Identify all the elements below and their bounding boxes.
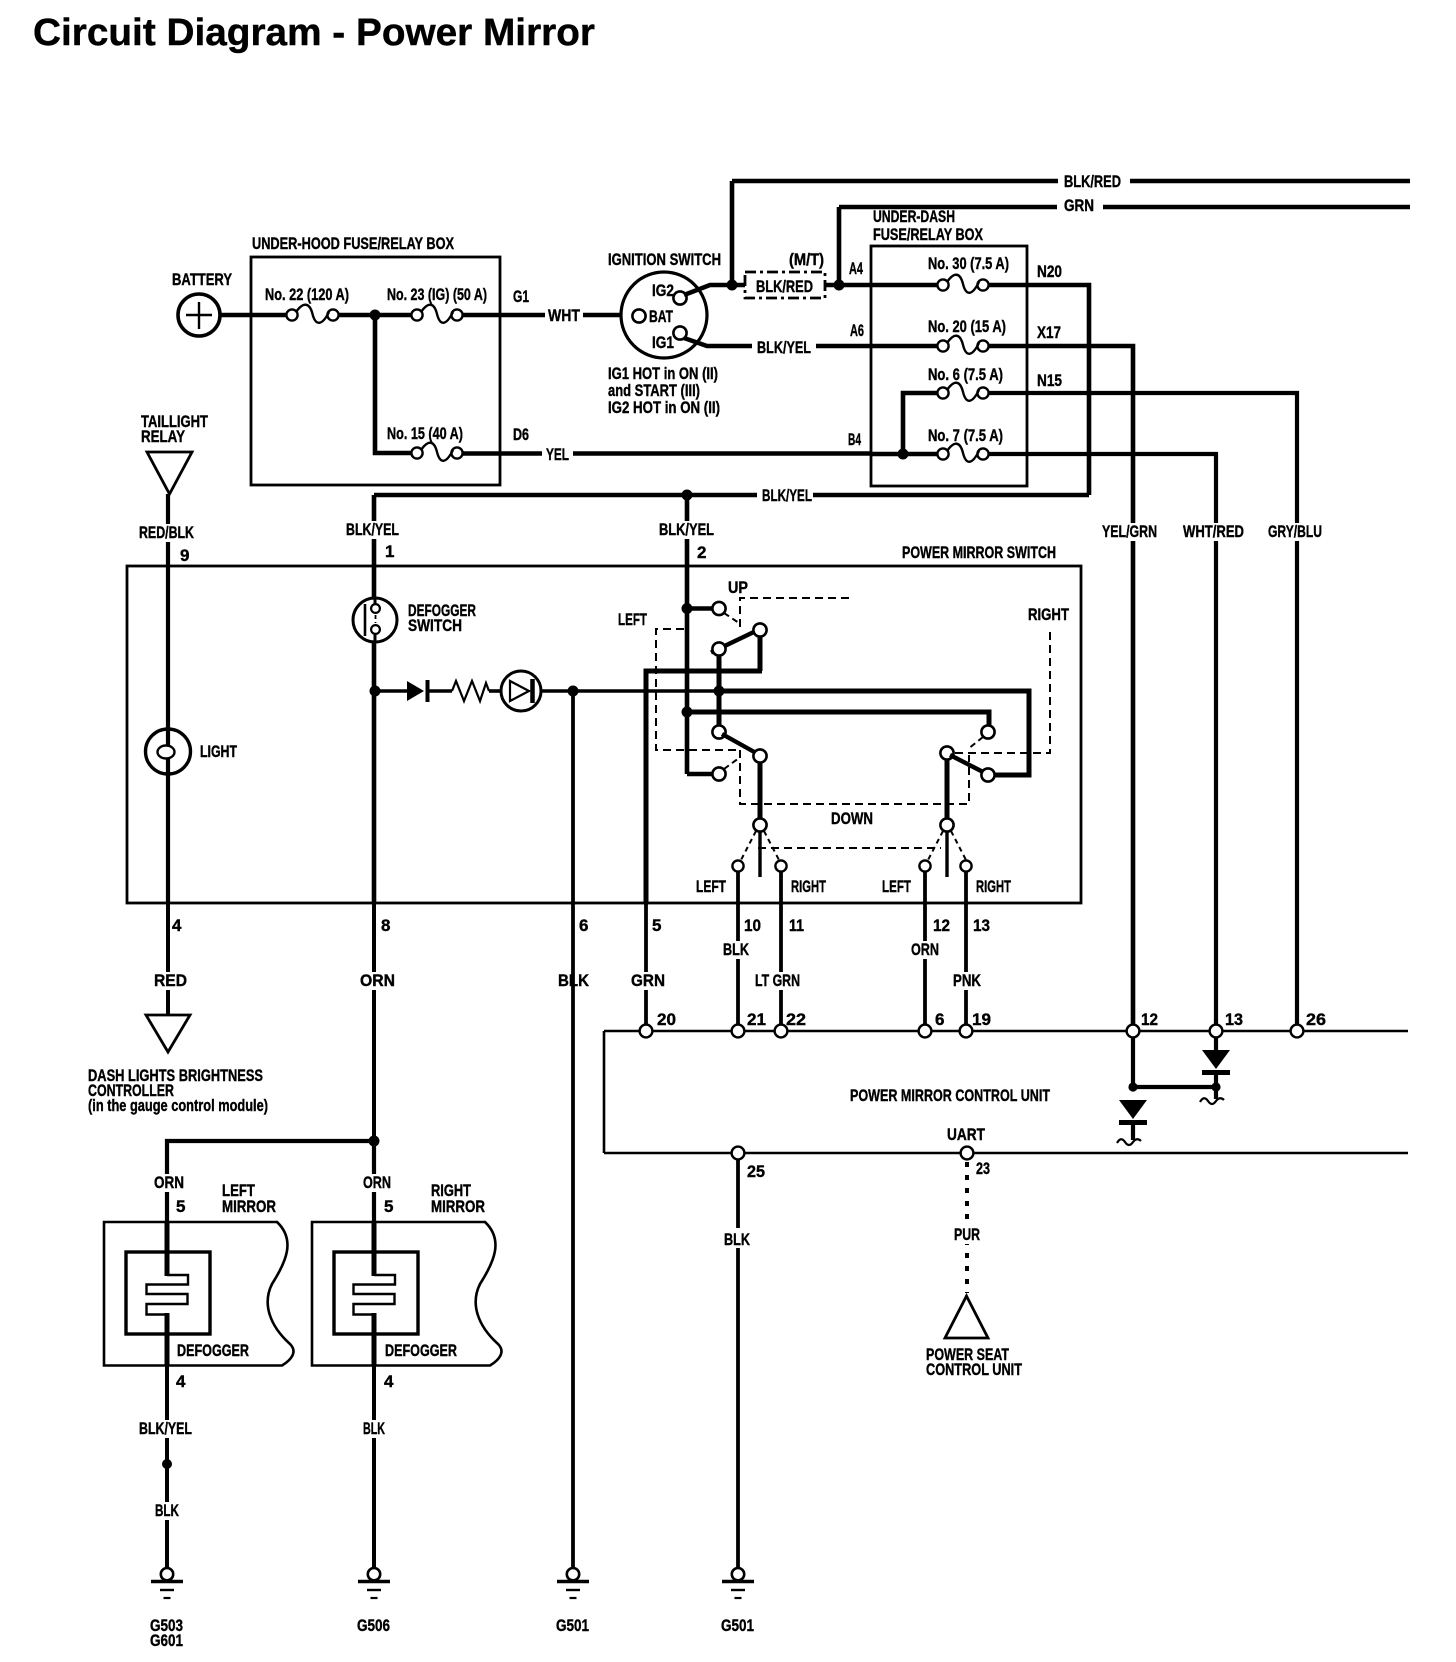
dashed select bar (758, 847, 941, 849)
svg-text:G501: G501 (721, 1616, 754, 1635)
svg-text:20: 20 (657, 1010, 676, 1029)
wire diode bus (1133, 1085, 1216, 1089)
svg-text:No. 23 (IG) (50 A): No. 23 (IG) (50 A) (387, 285, 487, 304)
node junction up contact (682, 603, 693, 614)
wire RED/BLK pin 9 (137, 494, 197, 566)
under-hood fuse/relay box (251, 234, 500, 485)
svg-text:RIGHT: RIGHT (1028, 605, 1069, 624)
svg-text:BAT: BAT (649, 307, 673, 326)
label BLK pin6 (556, 972, 592, 990)
wire ORN to left mirror (167, 1141, 374, 1222)
wire battery to under-hood box (220, 313, 288, 318)
svg-text:IG1: IG1 (652, 333, 674, 352)
contact C5 common (753, 749, 766, 762)
contact C6 fork (753, 818, 766, 831)
wire pin12 internal (1131, 1037, 1135, 1087)
wire pin11 (779, 871, 783, 903)
fuse No.15 (40 A) (387, 424, 463, 461)
svg-text:IG2 HOT in ON (II): IG2 HOT in ON (II) (608, 398, 720, 417)
svg-text:BLK/YEL: BLK/YEL (346, 520, 399, 539)
svg-text:No. 15 (40 A): No. 15 (40 A) (387, 424, 463, 443)
left mirror with defogger (104, 1181, 294, 1366)
svg-text:UNDER-DASH: UNDER-DASH (873, 207, 955, 226)
svg-text:X17: X17 (1037, 323, 1061, 342)
connector numbers (657, 1010, 1326, 1029)
dash lights brightness controller (88, 1015, 268, 1115)
wire X17 output YEL/GRN (989, 346, 1160, 1031)
connector pin 26 (1291, 1025, 1304, 1038)
wire IG2 to BLK/RED connector (684, 285, 745, 295)
svg-text:IGNITION SWITCH: IGNITION SWITCH (608, 250, 721, 269)
node junction diode2 (1211, 1082, 1220, 1091)
fuse No.20 (15 A) (871, 317, 1006, 354)
svg-text:13: 13 (1225, 1010, 1243, 1029)
node junction pin6 (568, 686, 579, 697)
wire pin6 BLK to ground (571, 903, 575, 1568)
svg-text:BLK/RED: BLK/RED (1064, 172, 1121, 191)
fuse No.6 (7.5 A) (903, 365, 1003, 454)
contact C3 (712, 642, 725, 655)
connector BLK/RED (M/T) (745, 250, 825, 298)
power mirror switch box (127, 543, 1081, 903)
connector pin 22 (775, 1025, 788, 1038)
connector pin 13 (1210, 1025, 1223, 1038)
svg-text:BLK/YEL: BLK/YEL (757, 338, 811, 357)
wire to up contact (687, 606, 713, 611)
diode D1 (407, 680, 428, 702)
wire pin8 ORN (358, 903, 398, 1141)
svg-text:No. 6 (7.5 A): No. 6 (7.5 A) (928, 365, 1003, 384)
defogger switch (353, 598, 476, 642)
fork left mirror select (741, 831, 779, 877)
svg-text:A4: A4 (849, 259, 863, 278)
wire D6 YEL to under-dash B4 (462, 444, 871, 464)
node splice BLK/YEL-BLK (162, 1459, 172, 1469)
ground G501 (pin6) (556, 1568, 589, 1635)
svg-text:12: 12 (1141, 1010, 1158, 1029)
wire C5 down (758, 762, 763, 820)
wire pin2 column (685, 566, 690, 774)
svg-text:8: 8 (381, 916, 390, 935)
wire pin1 BLK/YEL (344, 495, 402, 566)
svg-text:UP: UP (728, 578, 748, 597)
svg-text:WHT/RED: WHT/RED (1183, 522, 1244, 541)
svg-text:G1: G1 (513, 287, 529, 306)
dashed UP box (724, 578, 853, 627)
ground G503/G601 (150, 1568, 183, 1650)
svg-text:MIRROR: MIRROR (222, 1197, 276, 1216)
contact pin10 (732, 860, 743, 871)
svg-text:26: 26 (1306, 1010, 1326, 1029)
wire resistor to LED (489, 689, 501, 693)
svg-text:BATTERY: BATTERY (172, 270, 233, 289)
node junction A4 (834, 280, 845, 291)
wire G1 WHT to ignition BAT (462, 305, 633, 325)
svg-text:RELAY: RELAY (141, 427, 186, 446)
svg-text:ORN: ORN (154, 1173, 184, 1192)
title (33, 12, 595, 54)
fuse No.22 (120 A) (265, 285, 349, 323)
wire line B to right switch (687, 712, 989, 727)
ignition switch (608, 250, 721, 358)
wire pin5 GRN to 20 (629, 903, 668, 1031)
contact pin12 (919, 860, 930, 871)
contact pin11 (775, 860, 786, 871)
svg-text:MIRROR: MIRROR (431, 1197, 485, 1216)
svg-text:9: 9 (180, 546, 189, 565)
svg-text:12: 12 (933, 916, 950, 935)
connector pin 23 UART (961, 1147, 974, 1160)
svg-text:RIGHT: RIGHT (976, 877, 1011, 896)
contact R2 fork (940, 818, 953, 831)
svg-text:BLK/YEL: BLK/YEL (659, 520, 714, 539)
right mirror with defogger (312, 1181, 502, 1366)
contact C1 up throw (712, 602, 725, 615)
svg-text:FUSE/RELAY BOX: FUSE/RELAY BOX (873, 225, 983, 244)
wire LED to switch common (541, 689, 719, 693)
svg-text:BLK: BLK (724, 1230, 751, 1249)
svg-text:No. 30 (7.5 A): No. 30 (7.5 A) (928, 254, 1009, 273)
wire riser to BLK/RED line (730, 181, 735, 285)
svg-text:DEFOGGER: DEFOGGER (385, 1341, 457, 1360)
wire pin2 BLK/YEL (657, 495, 717, 566)
svg-text:POWER MIRROR SWITCH: POWER MIRROR SWITCH (902, 543, 1056, 562)
resistor R1 (452, 681, 489, 701)
node junction lamp circuit (370, 686, 381, 697)
svg-text:5: 5 (652, 916, 661, 935)
connector pin 6 (919, 1025, 932, 1038)
connector pin 12 (1127, 1025, 1140, 1038)
BLK/RED line top (732, 172, 1410, 191)
node junction pin2 feed (682, 490, 693, 501)
wire BLK/RED box to A4 (825, 283, 871, 288)
contact T2 lower throw (981, 768, 994, 781)
svg-text:RED/BLK: RED/BLK (139, 523, 195, 542)
wire R1 down (945, 759, 950, 820)
wire to lower-left throw C7 (687, 772, 713, 777)
wire pin6 BLK (571, 691, 575, 903)
wire pin13 PNK to 19 (951, 903, 984, 1031)
wire N15 output GRY/BLU (989, 393, 1325, 1031)
wire rail y671 to pin5 (646, 671, 762, 903)
connector pin 19 (960, 1025, 973, 1038)
svg-text:LEFT: LEFT (696, 877, 726, 896)
svg-text:4: 4 (172, 916, 182, 935)
wire right mirror pin4 BLK (361, 1365, 395, 1568)
svg-text:No. 22 (120 A): No. 22 (120 A) (265, 285, 349, 304)
ignition note text (608, 364, 720, 417)
svg-text:RED: RED (154, 971, 187, 990)
svg-text:N20: N20 (1037, 262, 1062, 281)
svg-text:GRY/BLU: GRY/BLU (1268, 522, 1322, 541)
svg-text:G506: G506 (357, 1616, 390, 1635)
power seat control unit (926, 1296, 1022, 1379)
svg-text:PNK: PNK (953, 971, 982, 990)
blade C3-C2 (711, 631, 757, 653)
svg-text:GRN: GRN (631, 971, 665, 990)
wire pin12 ORN to 6 (909, 903, 942, 1031)
pin number labels below switch (172, 916, 990, 935)
svg-text:2: 2 (697, 543, 706, 562)
node junction G1 feed (370, 310, 381, 321)
node junction ORN split (369, 1136, 380, 1147)
svg-text:Circuit Diagram - Power Mirror: Circuit Diagram - Power Mirror (33, 12, 595, 54)
wire N20 output (989, 285, 1089, 495)
svg-text:No. 7 (7.5 A): No. 7 (7.5 A) (928, 426, 1003, 445)
wire X35 output WHT/RED (989, 454, 1247, 1031)
svg-text:5: 5 (176, 1197, 185, 1216)
ground G501 (pin25) (721, 1568, 754, 1635)
wire fuse22 to junction (338, 313, 412, 318)
svg-text:LIGHT: LIGHT (200, 742, 237, 761)
wire pin10 BLK to 21 (721, 903, 752, 1031)
svg-text:LT GRN: LT GRN (755, 971, 800, 990)
wire pin4 RED (152, 903, 190, 1014)
svg-text:21: 21 (747, 1010, 766, 1029)
wire pin11 LT GRN to 22 (753, 903, 803, 1031)
svg-text:LEFT: LEFT (882, 877, 911, 896)
dashed LEFT box (618, 610, 740, 750)
svg-text:6: 6 (579, 916, 588, 935)
wire junction to diode (375, 689, 407, 693)
indicator LED lamp (501, 671, 541, 711)
svg-text:BLK: BLK (723, 940, 750, 959)
svg-text:A6: A6 (850, 321, 864, 340)
svg-text:BLK: BLK (363, 1419, 385, 1438)
diode D2 (pin12) (1117, 1100, 1147, 1145)
ground G506 (357, 1568, 390, 1635)
svg-text:BLK: BLK (155, 1501, 179, 1520)
connector pin 21 (732, 1025, 745, 1038)
fork right mirror select (928, 831, 966, 877)
svg-text:11: 11 (789, 916, 804, 935)
wire diode to resistor (429, 689, 452, 693)
svg-text:RIGHT: RIGHT (791, 877, 826, 896)
svg-text:UART: UART (947, 1125, 985, 1144)
svg-text:ORN: ORN (360, 971, 395, 990)
svg-text:G501: G501 (556, 1616, 589, 1635)
contact C4 (712, 725, 725, 738)
svg-text:WHT: WHT (548, 306, 580, 325)
node junction IG2/BLK-RED riser (727, 280, 738, 291)
wire IG1 BLK/YEL to A6 (684, 336, 871, 357)
under-dash fuse/relay box (871, 207, 1027, 486)
svg-text:4: 4 (384, 1372, 394, 1391)
svg-text:DOWN: DOWN (831, 809, 873, 828)
svg-text:G601: G601 (150, 1631, 183, 1650)
svg-text:IG2: IG2 (652, 281, 674, 300)
wire C2 to GRN rail (758, 636, 763, 671)
svg-text:DEFOGGER: DEFOGGER (177, 1341, 249, 1360)
svg-text:UNDER-HOOD FUSE/RELAY BOX: UNDER-HOOD FUSE/RELAY BOX (252, 234, 454, 253)
svg-text:GRN: GRN (1064, 196, 1094, 215)
lamp LIGHT (146, 729, 238, 774)
svg-text:BLK/RED: BLK/RED (756, 277, 813, 296)
svg-text:PUR: PUR (954, 1225, 980, 1244)
svg-text:YEL: YEL (546, 445, 569, 464)
connector pin 20 (640, 1025, 653, 1038)
wire junction down to fuse No.15 (375, 315, 412, 453)
svg-text:(in the gauge control module): (in the gauge control module) (88, 1096, 268, 1115)
svg-text:13: 13 (973, 916, 990, 935)
taillight relay (141, 412, 208, 494)
label ORN right (361, 1173, 394, 1216)
svg-text:LEFT: LEFT (618, 610, 647, 629)
svg-text:No. 20 (15 A): No. 20 (15 A) (928, 317, 1006, 336)
contact R1 common (940, 746, 953, 759)
wire light to pin4 (166, 774, 170, 903)
GRN line top (839, 196, 1410, 215)
node junction B4 (898, 449, 909, 460)
svg-text:YEL/GRN: YEL/GRN (1102, 522, 1157, 541)
svg-text:ORN: ORN (363, 1173, 391, 1192)
svg-text:CONTROL UNIT: CONTROL UNIT (926, 1360, 1022, 1379)
wire pin23 PUR dotted (948, 1162, 986, 1293)
contact T1 upper throw (981, 725, 994, 738)
wire pin12 (923, 871, 927, 903)
connector pin 25 (732, 1147, 745, 1160)
svg-text:(M/T): (M/T) (789, 250, 824, 269)
svg-text:B4: B4 (848, 430, 861, 449)
svg-text:BLK/YEL: BLK/YEL (762, 486, 812, 505)
svg-text:23: 23 (976, 1159, 990, 1178)
node junction line A left (714, 686, 725, 697)
svg-text:10: 10 (744, 916, 761, 935)
wire left mirror pin4 BLK/YEL (137, 1365, 195, 1568)
blade R1-T2 (950, 755, 985, 773)
wire GRN riser (837, 207, 842, 285)
wire line A to right switch (719, 691, 1029, 775)
svg-text:D6: D6 (513, 425, 529, 444)
svg-text:SWITCH: SWITCH (408, 616, 462, 635)
fuse No.30 (7.5 A) (871, 254, 1009, 293)
fuse No.23 (IG) (50 A) (387, 285, 487, 323)
contact pin13 (960, 860, 971, 871)
BLK/YEL bus wire (374, 486, 1089, 505)
wire pin25 BLK to ground (719, 1159, 756, 1568)
svg-text:25: 25 (747, 1162, 765, 1181)
contact C2 common (753, 623, 766, 636)
fuse No.7 (7.5 A) (871, 426, 1003, 462)
wire defogger switch to pin8 (372, 642, 377, 903)
svg-text:19: 19 (972, 1010, 991, 1029)
power mirror control unit (604, 1031, 1408, 1153)
svg-text:1: 1 (385, 542, 394, 561)
node junction diode bus (1128, 1082, 1137, 1091)
svg-text:4: 4 (176, 1372, 186, 1391)
svg-text:22: 22 (786, 1010, 806, 1029)
svg-text:5: 5 (384, 1197, 393, 1216)
svg-text:6: 6 (935, 1010, 944, 1029)
dashed RIGHT box (955, 605, 1069, 753)
svg-text:ORN: ORN (911, 940, 939, 959)
wire C3 down through line A (717, 655, 722, 727)
node junction line B (682, 707, 693, 718)
dashed DOWN box (724, 750, 969, 828)
wire pin9 to light (166, 566, 170, 730)
wire pin10 (736, 871, 740, 903)
svg-text:BLK/YEL: BLK/YEL (139, 1419, 192, 1438)
battery (172, 270, 233, 336)
contact C7 lower throw (712, 767, 725, 780)
wire pin1 to defogger switch (372, 566, 377, 600)
svg-text:N15: N15 (1037, 371, 1062, 390)
diode D3 (pin13) (1200, 1037, 1230, 1104)
svg-text:POWER MIRROR CONTROL UNIT: POWER MIRROR CONTROL UNIT (850, 1086, 1050, 1105)
label ORN left (152, 1173, 187, 1216)
blade C4-C5 (722, 734, 757, 754)
wire pin13 (964, 871, 968, 903)
